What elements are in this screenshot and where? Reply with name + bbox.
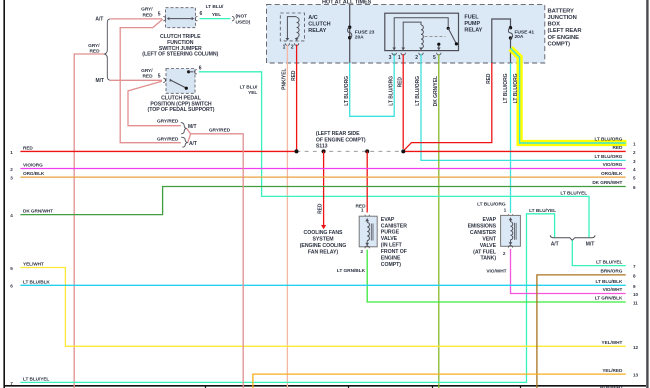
svg-text:2: 2 bbox=[415, 55, 418, 61]
svg-text:LT BLU/YEL: LT BLU/YEL bbox=[560, 190, 587, 196]
svg-text:6: 6 bbox=[200, 11, 203, 17]
svg-text:JUNCTION: JUNCTION bbox=[548, 15, 577, 21]
svg-text:20A: 20A bbox=[355, 34, 364, 40]
svg-text:GRY/RED: GRY/RED bbox=[209, 127, 231, 133]
svg-text:PURGE: PURGE bbox=[381, 230, 400, 236]
svg-text:LT BLU/: LT BLU/ bbox=[206, 4, 224, 10]
svg-text:COMPT): COMPT) bbox=[381, 262, 401, 268]
svg-text:LT BLU/ORG: LT BLU/ORG bbox=[513, 73, 519, 103]
svg-text:YEL/RED: YEL/RED bbox=[602, 368, 623, 373]
svg-text:GRY/RED: GRY/RED bbox=[157, 119, 179, 125]
svg-text:LT BLU/ORG: LT BLU/ORG bbox=[503, 73, 509, 103]
svg-text:RED: RED bbox=[143, 12, 154, 18]
svg-text:RED: RED bbox=[23, 145, 33, 150]
svg-text:ORG/BLK: ORG/BLK bbox=[601, 171, 623, 176]
svg-text:SYSTEM: SYSTEM bbox=[312, 237, 333, 243]
svg-text:LT BLU/ORG: LT BLU/ORG bbox=[344, 76, 350, 106]
svg-text:VIO/ORG: VIO/ORG bbox=[23, 163, 43, 168]
svg-text:M/T: M/T bbox=[586, 242, 594, 248]
svg-text:1: 1 bbox=[504, 207, 507, 213]
svg-text:20A: 20A bbox=[515, 34, 524, 40]
svg-text:COMPT): COMPT) bbox=[548, 41, 571, 47]
svg-text:RED: RED bbox=[143, 74, 154, 80]
svg-text:LT BLU/BLK: LT BLU/BLK bbox=[23, 279, 50, 284]
svg-text:USED): USED) bbox=[236, 19, 251, 25]
svg-text:ENGINE: ENGINE bbox=[381, 256, 401, 262]
svg-text:CANISTER: CANISTER bbox=[381, 223, 407, 229]
svg-text:LT GRN/BLK: LT GRN/BLK bbox=[337, 268, 366, 274]
svg-text:YEL: YEL bbox=[212, 12, 221, 18]
svg-text:LT BLU/ORG: LT BLU/ORG bbox=[388, 76, 394, 106]
svg-text:HOT AT ALL TIMES: HOT AT ALL TIMES bbox=[322, 0, 372, 6]
svg-text:DK GRN/WHT: DK GRN/WHT bbox=[23, 209, 53, 214]
svg-text:YEL/WHT: YEL/WHT bbox=[602, 340, 623, 345]
svg-text:A/T: A/T bbox=[551, 242, 559, 248]
svg-text:1: 1 bbox=[283, 45, 286, 51]
svg-text:LT BLU/ORG: LT BLU/ORG bbox=[595, 137, 623, 142]
svg-text:EVAP: EVAP bbox=[381, 217, 395, 223]
svg-text:5: 5 bbox=[158, 74, 161, 80]
svg-text:RELAY: RELAY bbox=[464, 28, 482, 34]
svg-text:2: 2 bbox=[360, 249, 363, 255]
svg-text:COOLING FANS: COOLING FANS bbox=[304, 230, 343, 236]
svg-text:BOX: BOX bbox=[548, 22, 561, 28]
svg-text:OF ENGINE: OF ENGINE bbox=[548, 35, 580, 41]
svg-text:DK GRN/WHT: DK GRN/WHT bbox=[592, 180, 622, 185]
svg-text:VALVE: VALVE bbox=[381, 236, 398, 242]
svg-text:RED: RED bbox=[291, 70, 297, 81]
svg-text:BRN/ORG: BRN/ORG bbox=[601, 269, 623, 274]
svg-text:FUEL: FUEL bbox=[464, 14, 479, 20]
svg-text:LT BLU/ORG: LT BLU/ORG bbox=[595, 154, 623, 159]
svg-text:6: 6 bbox=[199, 66, 202, 72]
svg-text:M/T: M/T bbox=[188, 124, 196, 130]
svg-text:FAN RELAY): FAN RELAY) bbox=[308, 250, 338, 256]
svg-text:(LEFT REAR SIDE: (LEFT REAR SIDE bbox=[316, 131, 360, 137]
svg-text:12: 12 bbox=[633, 345, 639, 350]
svg-text:VENT: VENT bbox=[482, 236, 497, 242]
svg-text:VALVE: VALVE bbox=[480, 243, 497, 249]
svg-text:(ENGINE COOLING: (ENGINE COOLING bbox=[300, 243, 347, 249]
svg-text:CANISTER: CANISTER bbox=[470, 230, 496, 236]
svg-text:5: 5 bbox=[433, 55, 436, 61]
svg-text:2: 2 bbox=[503, 251, 506, 257]
svg-text:A/T: A/T bbox=[95, 17, 103, 23]
svg-text:A/T: A/T bbox=[189, 141, 197, 147]
svg-text:ORG/BLK: ORG/BLK bbox=[23, 171, 45, 176]
svg-text:LT BLU/BLK: LT BLU/BLK bbox=[596, 279, 623, 284]
svg-text:GRY/: GRY/ bbox=[141, 7, 153, 13]
svg-text:RED: RED bbox=[613, 145, 623, 150]
svg-text:2: 2 bbox=[291, 45, 294, 51]
svg-text:LT BLU/YEL: LT BLU/YEL bbox=[596, 259, 622, 264]
svg-text:LT GRN/BLK: LT GRN/BLK bbox=[595, 296, 623, 301]
svg-text:PNK/YEL: PNK/YEL bbox=[282, 69, 288, 90]
svg-text:PUMP: PUMP bbox=[464, 21, 480, 27]
svg-text:VIO/WHT: VIO/WHT bbox=[486, 269, 506, 275]
svg-text:S113: S113 bbox=[316, 144, 328, 150]
svg-text:LT BLU/ORG: LT BLU/ORG bbox=[477, 202, 506, 208]
svg-text:13: 13 bbox=[633, 373, 639, 378]
svg-text:(LEFT REAR: (LEFT REAR bbox=[548, 28, 583, 34]
svg-text:(TOP OF PEDAL SUPPORT): (TOP OF PEDAL SUPPORT) bbox=[148, 107, 215, 113]
svg-text:LT BLU/ORG: LT BLU/ORG bbox=[415, 76, 421, 106]
svg-text:1: 1 bbox=[361, 207, 364, 213]
svg-text:M/T: M/T bbox=[96, 78, 104, 84]
svg-text:FRONT OF: FRONT OF bbox=[381, 249, 407, 255]
svg-text:1: 1 bbox=[398, 55, 401, 61]
svg-text:(IN LEFT: (IN LEFT bbox=[381, 243, 403, 249]
svg-text:TANK): TANK) bbox=[481, 256, 497, 262]
svg-text:(AT FUEL: (AT FUEL bbox=[473, 249, 497, 255]
svg-text:GRY/: GRY/ bbox=[88, 43, 100, 49]
svg-text:EVAP: EVAP bbox=[482, 217, 496, 223]
svg-text:EMISSIONS: EMISSIONS bbox=[468, 223, 497, 229]
svg-text:10: 10 bbox=[633, 292, 639, 297]
svg-text:YEL: YEL bbox=[248, 90, 257, 96]
svg-text:DK GRN/YEL: DK GRN/YEL bbox=[433, 76, 439, 106]
svg-text:11: 11 bbox=[633, 301, 638, 306]
svg-text:5: 5 bbox=[158, 11, 161, 17]
svg-text:BATTERY: BATTERY bbox=[548, 8, 575, 14]
svg-text:LT BLU/YEL: LT BLU/YEL bbox=[529, 208, 556, 214]
svg-text:VIO/ORG: VIO/ORG bbox=[603, 162, 623, 167]
svg-text:YEL/WHT: YEL/WHT bbox=[23, 262, 44, 267]
svg-text:LT BLU/YEL: LT BLU/YEL bbox=[23, 376, 49, 381]
svg-text:(NOT: (NOT bbox=[236, 14, 248, 20]
svg-text:OF ENGINE COMPT): OF ENGINE COMPT) bbox=[316, 137, 366, 143]
svg-text:(LEFT OF STEERING COLUMN): (LEFT OF STEERING COLUMN) bbox=[142, 52, 218, 58]
svg-text:RELAY: RELAY bbox=[308, 28, 326, 34]
svg-text:LT BLU/: LT BLU/ bbox=[240, 84, 258, 90]
svg-text:RED: RED bbox=[486, 73, 492, 84]
svg-text:GRY/: GRY/ bbox=[141, 68, 153, 74]
svg-text:GRY/RED: GRY/RED bbox=[157, 136, 179, 142]
svg-text:VIO/WHT: VIO/WHT bbox=[603, 287, 623, 292]
svg-text:A/C: A/C bbox=[308, 15, 317, 21]
svg-text:CLUTCH: CLUTCH bbox=[308, 22, 330, 28]
svg-text:RED: RED bbox=[397, 77, 403, 88]
svg-text:3: 3 bbox=[389, 55, 392, 61]
svg-text:RED: RED bbox=[317, 203, 323, 214]
